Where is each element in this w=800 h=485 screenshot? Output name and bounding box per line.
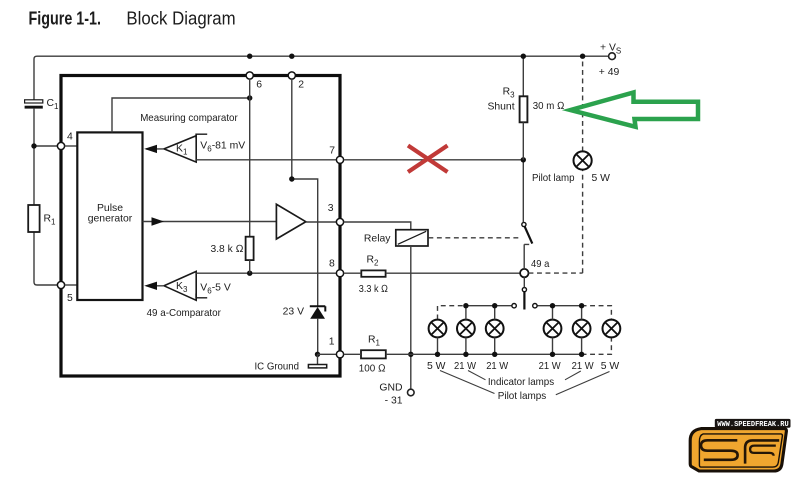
svg-text:generator: generator xyxy=(88,214,133,225)
switch hazard contact right xyxy=(533,304,537,308)
svg-text:- 31: - 31 xyxy=(385,396,403,407)
wire junction to pin 1 xyxy=(318,353,337,355)
wire pin4 to pulse generator xyxy=(65,145,78,147)
wire R3 to pin7 junction xyxy=(522,122,524,160)
wire R2 to node 49a xyxy=(386,272,520,274)
op-amp output amplifier xyxy=(276,204,305,239)
svg-text:3.3 k Ω: 3.3 k Ω xyxy=(359,284,388,295)
wire pin7 to R3 column xyxy=(344,159,524,161)
svg-text:Pulse: Pulse xyxy=(97,203,123,214)
pin 2 xyxy=(288,72,304,90)
svg-text:21 W: 21 W xyxy=(454,361,476,372)
svg-text:Figure 1-1.: Figure 1-1. xyxy=(29,9,102,29)
svg-text:IC Ground: IC Ground xyxy=(255,361,300,372)
svg-text:R1: R1 xyxy=(368,334,381,347)
svg-text:Shunt: Shunt xyxy=(487,102,514,113)
svg-text:R1: R1 xyxy=(44,214,57,227)
wire pulse generator output arrow to amplifier xyxy=(143,217,277,225)
svg-text:30 m Ω: 30 m Ω xyxy=(533,101,565,112)
node supply rail junction above pin2 xyxy=(289,54,294,59)
wire dashed top bus corner to L6 xyxy=(582,306,612,320)
wire 49a up to flasher switch seat xyxy=(524,244,529,269)
resistor R2 xyxy=(359,254,388,295)
wire pin2 column down with jog to zener xyxy=(292,79,318,305)
node pin2 jog junction xyxy=(289,176,294,181)
svg-text:R3: R3 xyxy=(503,87,516,100)
pulse generator block xyxy=(77,132,142,300)
svg-text:V6-5 V: V6-5 V xyxy=(200,283,231,296)
label V6-5 V with underbar xyxy=(196,283,231,298)
wire K3 output arrow into pulse generator xyxy=(144,282,164,290)
diode zener 23V xyxy=(283,306,326,318)
svg-text:8: 8 xyxy=(329,259,335,270)
svg-text:6: 6 xyxy=(256,79,262,90)
svg-text:100 Ω: 100 Ω xyxy=(359,363,386,374)
svg-text:7: 7 xyxy=(329,146,335,157)
svg-text:21 W: 21 W xyxy=(486,361,508,372)
wire pin5 to pulse generator xyxy=(65,284,78,286)
node pin7/R3 junction xyxy=(521,157,526,162)
relay coil xyxy=(364,230,428,246)
pin 3 xyxy=(328,203,344,226)
lamp L5 21W xyxy=(572,303,594,372)
IC block outline xyxy=(61,76,340,377)
svg-text:Measuring comparator: Measuring comparator xyxy=(140,113,238,124)
lamp L6 5W xyxy=(601,320,621,372)
wire top bus right solid xyxy=(537,305,582,307)
svg-text:R2: R2 xyxy=(367,254,380,267)
svg-text:49 a: 49 a xyxy=(531,259,549,270)
switch hazard contact left xyxy=(512,304,516,308)
svg-text:+ 49: + 49 xyxy=(599,67,620,78)
switch flasher lever xyxy=(525,227,533,244)
svg-text:5: 5 xyxy=(67,293,73,304)
switch flasher pivot xyxy=(522,222,526,226)
pin 1 xyxy=(329,337,344,358)
wire pin8 to R2 xyxy=(344,272,362,274)
svg-text:5 W: 5 W xyxy=(427,361,446,372)
wire top bus left solid xyxy=(466,305,512,307)
svg-text:V6-81 mV: V6-81 mV xyxy=(200,140,245,153)
switch hazard lever xyxy=(523,292,525,310)
wire pin1 to R1 xyxy=(344,353,361,355)
pin 5 xyxy=(57,281,73,304)
svg-text:5 W: 5 W xyxy=(592,173,611,184)
node feedback junction xyxy=(247,95,252,100)
lamp pilot 5W xyxy=(532,151,610,184)
resistor R1 (left) xyxy=(28,205,56,232)
node junction C1/R1/pin4 xyxy=(31,143,36,148)
svg-text:Indicator lamps: Indicator lamps xyxy=(488,377,554,388)
node relay/bus junction xyxy=(408,352,413,357)
node supply rail junction above pin6 xyxy=(247,54,252,59)
label Indicator lamps with pointer lines xyxy=(468,371,581,388)
svg-text:1: 1 xyxy=(329,337,335,348)
wire dashed top bus L1 corner xyxy=(438,306,466,320)
svg-text:Relay: Relay xyxy=(364,234,391,245)
wire 3.8k bottom to junction xyxy=(249,260,251,273)
node 49a xyxy=(520,259,549,277)
op-amp K3 49a comparator xyxy=(164,271,196,300)
svg-text:2: 2 xyxy=(298,79,304,90)
node GND -31 terminal xyxy=(379,383,414,407)
svg-text:5 W: 5 W xyxy=(601,361,620,372)
wire dashed bus corner to lamp L6 xyxy=(582,338,612,355)
wire zener to ground junction xyxy=(317,319,319,355)
node supply rail junction R3 column xyxy=(521,54,526,59)
pin 7 xyxy=(329,146,343,164)
logo speedfreak banner xyxy=(715,419,791,429)
svg-text:Block Diagram: Block Diagram xyxy=(126,9,235,29)
wire supply top rail xyxy=(34,56,609,100)
lamp L4 21W xyxy=(539,303,562,372)
switch hazard pivot xyxy=(522,288,526,292)
wire amplifier output to pin 3 xyxy=(306,221,337,223)
svg-text:49 a-Comparator: 49 a-Comparator xyxy=(147,308,222,319)
node 3.8k to K3 line junction xyxy=(247,271,252,276)
wire dashed relay to switch xyxy=(428,237,521,239)
wire dashed pilot lamp column upper xyxy=(582,56,584,151)
resistor R1 100 ohm xyxy=(359,334,386,374)
node supply rail junction pilot column xyxy=(580,54,585,59)
wire pin3 to relay xyxy=(344,222,411,230)
wire relay down to ground bus xyxy=(410,246,412,389)
svg-text:23 V: 23 V xyxy=(283,307,304,318)
svg-text:4: 4 xyxy=(67,132,73,143)
wire dashed pilot lamp column lower xyxy=(582,170,584,274)
wire K3 input line to pin 8 xyxy=(196,272,336,274)
pin 4 xyxy=(57,132,73,150)
wire R3 junction down to flasher switch xyxy=(522,160,524,223)
svg-text:C1: C1 xyxy=(47,98,60,111)
wire lamp ground bus xyxy=(386,353,582,355)
capacitor C1 xyxy=(25,98,59,111)
wire supply to R3 xyxy=(522,56,524,96)
wire dashed 49a to pilot lamp column xyxy=(529,272,583,274)
wire K1 output line to pin 7 xyxy=(196,159,336,161)
wire K1 output arrow into pulse generator xyxy=(144,145,164,153)
wire pulse generator feedback to pin6 column xyxy=(112,98,250,132)
wire pin6 column down to 3.8k resistor xyxy=(249,79,251,237)
label V6-81 mV with overbar xyxy=(196,134,245,153)
annotation green arrow xyxy=(571,93,699,127)
svg-text:Pilot lamps: Pilot lamps xyxy=(498,391,547,402)
pin 6 xyxy=(246,72,262,90)
node +Vs terminal xyxy=(599,42,621,78)
node ground junction xyxy=(315,352,320,357)
pin 8 xyxy=(329,259,344,277)
ground IC ground symbol xyxy=(255,354,327,372)
svg-text:21 W: 21 W xyxy=(572,361,594,372)
svg-text:3.8 k Ω: 3.8 k Ω xyxy=(211,244,244,255)
wire 49a to hazard switch pivot xyxy=(523,277,525,287)
svg-text:21 W: 21 W xyxy=(539,361,561,372)
wire left rail xyxy=(34,109,57,285)
lamp L2 21W xyxy=(454,303,476,372)
resistor R3 shunt 30 mohm xyxy=(487,87,564,123)
annotation red X cross xyxy=(408,146,448,173)
title text xyxy=(29,9,236,29)
svg-text:Pilot lamp: Pilot lamp xyxy=(532,173,575,184)
resistor 3.8k xyxy=(211,237,254,260)
op-amp K1 measuring comparator xyxy=(164,136,196,162)
logo speedfreak badge xyxy=(690,429,786,471)
svg-text:3: 3 xyxy=(328,203,334,214)
lamp L1 5W xyxy=(427,320,446,372)
label Pilot lamps with pointer lines xyxy=(440,371,610,402)
lamp L3 21W xyxy=(486,303,509,372)
svg-text:GND: GND xyxy=(379,383,402,394)
